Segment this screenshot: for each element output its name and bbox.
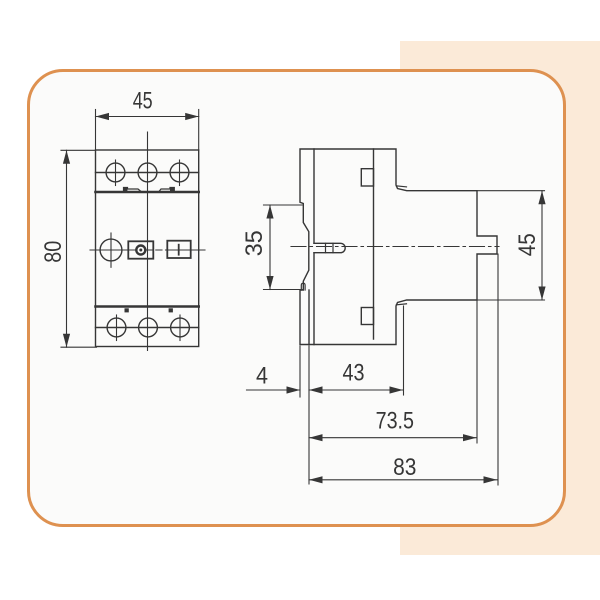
svg-text:80: 80 [40, 241, 67, 263]
rail foot inner edge [308, 290, 310, 345]
start button bar [178, 245, 180, 255]
stop button box [128, 241, 153, 258]
dimension 45 right: extension lines [477, 190, 545, 192]
dimension 83: right extension [497, 254, 499, 485]
dimension 73.5: right extension [476, 300, 478, 443]
stop button ring [136, 246, 145, 255]
tab detail upper-left [124, 188, 142, 192]
dimension 43: line [309, 389, 403, 391]
terminal circle top-middle [138, 163, 157, 182]
lower clip rectangle [361, 308, 373, 325]
horizontal centerline of side view [291, 246, 499, 248]
top step ledge [396, 186, 406, 187]
dimension 80 left: line [66, 150, 68, 347]
dimension 35: extension lines [264, 204, 303, 206]
svg-text:45: 45 [133, 88, 153, 115]
card panel with orange border [27, 69, 566, 527]
inner front wall [373, 149, 375, 339]
terminal circle bottom-middle [139, 318, 158, 337]
horizontal centerline of middle row [90, 249, 205, 251]
tab detail upper-right [159, 188, 174, 192]
dimension 73.5: line [309, 437, 477, 439]
rotary knob circle [100, 239, 122, 261]
svg-text:83: 83 [393, 454, 416, 481]
start button box [167, 241, 190, 258]
upper clip rectangle [361, 169, 373, 186]
svg-text:45: 45 [514, 233, 541, 256]
tab square lower-left [125, 308, 129, 312]
inner back wall [313, 149, 315, 345]
terminal circle top-left [106, 163, 125, 182]
terminal row line top [96, 172, 199, 174]
front view body outline [96, 150, 199, 347]
terminal row line bottom [96, 327, 199, 329]
terminal circle top-right [170, 163, 189, 182]
dimension 83: line [309, 479, 497, 481]
dimension 43: right extension [403, 306, 405, 395]
side view outline [300, 149, 497, 345]
dimension 35: line [269, 205, 271, 290]
svg-text:43: 43 [343, 360, 365, 387]
terminal circle bottom-left [107, 318, 126, 337]
dimension 80 left: extension lines [61, 149, 96, 151]
DIN clip spring hook [301, 283, 305, 290]
svg-text:73.5: 73.5 [376, 408, 414, 435]
dimension 45 right: line [541, 191, 543, 300]
dimension 4: extension lines [299, 346, 301, 397]
dimension 45 top: extension lines [95, 110, 97, 151]
svg-text:35: 35 [241, 230, 268, 256]
dimension 4: line with outside arrow [247, 389, 301, 391]
tab square lower-right [169, 308, 173, 312]
bottom step ledge [396, 304, 406, 305]
separator thick line upper [96, 191, 199, 194]
terminal circle bottom-right [171, 318, 190, 337]
vertical centerline of front view [147, 132, 149, 351]
svg-text:4: 4 [256, 363, 268, 390]
dimension 45 top: line [96, 116, 199, 118]
DIN release pin [314, 243, 345, 252]
separator thick line lower [96, 305, 199, 308]
peach background band [400, 41, 600, 555]
